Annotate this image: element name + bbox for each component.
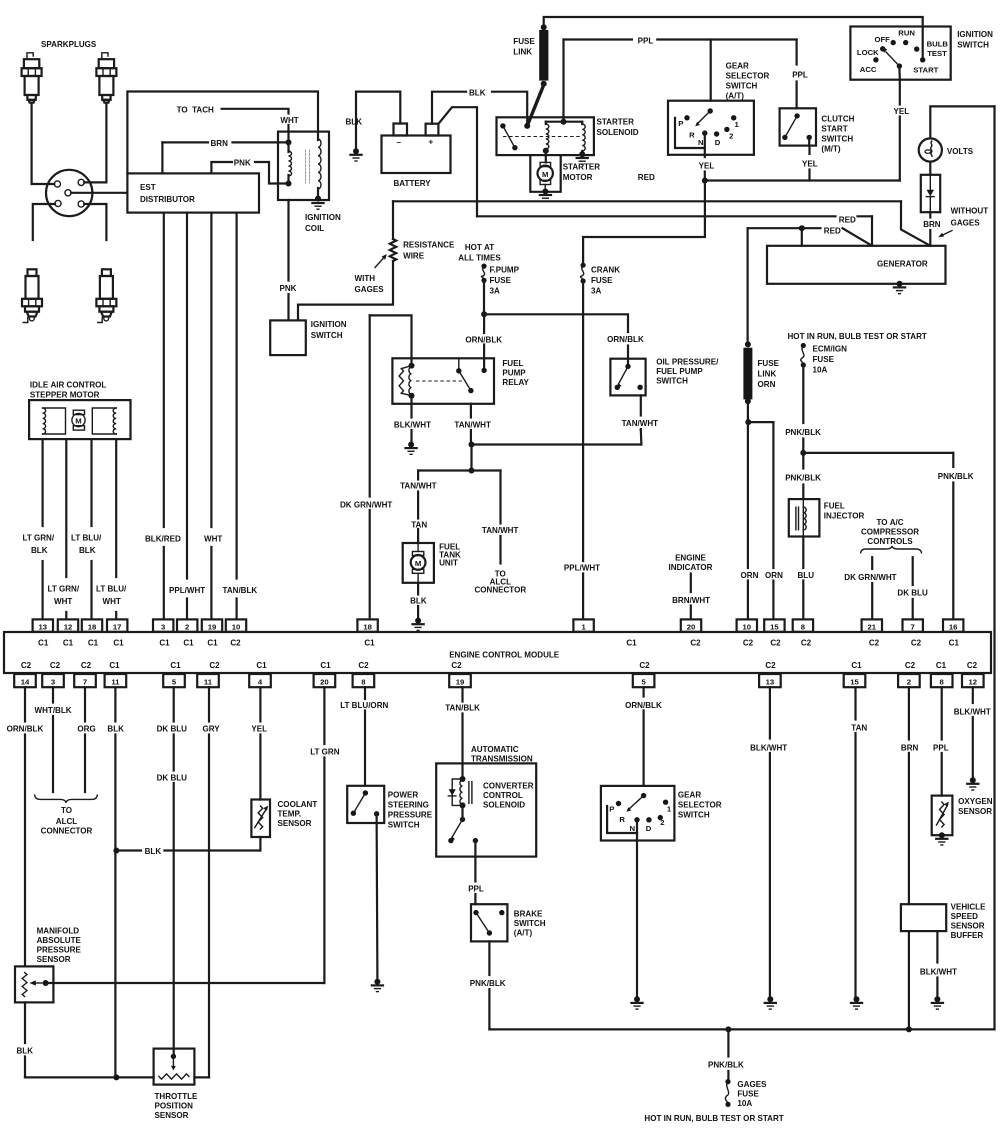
svg-text:TO A/C: TO A/C bbox=[876, 518, 903, 527]
svg-text:C1: C1 bbox=[626, 639, 637, 648]
node BLK coolant tee bbox=[113, 848, 119, 854]
wire solenoid winding to starter motor bbox=[545, 151, 547, 163]
wire distributor center to EST box bbox=[71, 192, 127, 194]
fuse link F1 bbox=[541, 24, 547, 30]
svg-text:ORN: ORN bbox=[758, 380, 776, 389]
svg-text:C1: C1 bbox=[88, 639, 99, 648]
svg-text:BATTERY: BATTERY bbox=[394, 179, 432, 188]
svg-text:C1: C1 bbox=[320, 661, 331, 670]
TPS wiper contact bbox=[171, 1054, 176, 1059]
wire LT GRN/WHT to ECM pin 12 bbox=[65, 439, 67, 577]
ground power steering switch bbox=[372, 984, 383, 986]
svg-text:UNIT: UNIT bbox=[439, 559, 458, 568]
svg-text:20: 20 bbox=[320, 677, 329, 686]
svg-text:ENGINE CONTROL MODULE: ENGINE CONTROL MODULE bbox=[449, 651, 560, 660]
ECM bottom pin 2 bbox=[898, 674, 920, 687]
wire BLK ECM pin 11 to sensors ground bbox=[114, 687, 116, 721]
svg-text:GAGES: GAGES bbox=[951, 219, 981, 228]
svg-text:ORN/BLK: ORN/BLK bbox=[625, 701, 662, 710]
svg-text:LT GRN/: LT GRN/ bbox=[48, 585, 80, 594]
node ORN branch bbox=[745, 419, 751, 425]
wire spark plug 1 to distributor bbox=[32, 103, 55, 184]
wire YEL clutch switch bbox=[808, 137, 810, 145]
arrow with gages bbox=[375, 258, 384, 268]
wire right-side rail down to bottom bus bbox=[993, 106, 995, 1029]
svg-text:LINK: LINK bbox=[513, 48, 532, 57]
wire BLK/WHT ECM pin 12 to ground bbox=[972, 687, 974, 703]
svg-text:STARTER: STARTER bbox=[597, 118, 635, 127]
svg-text:C2: C2 bbox=[358, 661, 369, 670]
gear selector bracket wire bbox=[675, 118, 705, 148]
svg-text:WITHOUT: WITHOUT bbox=[951, 207, 989, 216]
oxygen sensor box bbox=[932, 796, 953, 836]
diode D1 bbox=[927, 190, 934, 197]
svg-text:C2: C2 bbox=[21, 661, 32, 670]
ignition coil U1 box bbox=[278, 132, 329, 200]
svg-text:FUSE: FUSE bbox=[737, 1090, 759, 1099]
wire LT BLU/BLK to ECM pin 18 bbox=[90, 439, 92, 526]
node relay coil feed bbox=[481, 368, 486, 373]
svg-text:13: 13 bbox=[39, 622, 48, 631]
wire power steering switch to ground bbox=[376, 814, 379, 979]
ECM top pin 19 bbox=[202, 619, 222, 631]
svg-text:TAN/BLK: TAN/BLK bbox=[223, 586, 258, 595]
svg-text:SWITCH: SWITCH bbox=[656, 377, 688, 386]
wire LT BLU/WHT to ECM pin 17 bbox=[115, 439, 117, 577]
arrow without gages bbox=[942, 231, 952, 236]
wire BRN ECM pin 2 to speed buffer bbox=[908, 687, 910, 739]
svg-text:10: 10 bbox=[232, 622, 241, 631]
svg-text:CONNECTOR: CONNECTOR bbox=[41, 827, 93, 836]
svg-text:TO TACH: TO TACH bbox=[177, 106, 214, 115]
wire gear selector to ground bbox=[636, 833, 638, 996]
vehicle speed sensor buffer box bbox=[901, 904, 946, 931]
svg-text:F.PUMP: F.PUMP bbox=[490, 266, 520, 275]
svg-text:BRAKE: BRAKE bbox=[514, 910, 543, 919]
svg-text:BUFFER: BUFFER bbox=[951, 931, 984, 940]
node solenoid winding tap bbox=[561, 119, 567, 125]
svg-text:PNK: PNK bbox=[280, 284, 297, 293]
svg-text:START: START bbox=[913, 65, 938, 74]
svg-text:3: 3 bbox=[161, 622, 165, 631]
svg-text:10A: 10A bbox=[737, 1099, 752, 1108]
wire PPL/WHT distributor to ECM pin 2 bbox=[186, 213, 188, 579]
fuel pump relay coil bbox=[409, 363, 415, 369]
svg-text:DISTRIBUTOR: DISTRIBUTOR bbox=[140, 195, 195, 204]
ground battery negative bbox=[350, 154, 361, 156]
wire YEL ignition switch bbox=[898, 66, 901, 80]
oil pressure / fuel pump switch box bbox=[610, 359, 645, 396]
wire BLK battery positive to starter solenoid bbox=[432, 92, 466, 124]
idle air control motor M bbox=[73, 410, 84, 414]
wire TAN/WHT to fuel tank unit bbox=[417, 471, 419, 480]
svg-text:ORN/BLK: ORN/BLK bbox=[465, 336, 502, 345]
wire DK BLU ECM pin 5 to TPS bbox=[173, 687, 175, 721]
wire fuse link to solenoid bbox=[527, 85, 544, 126]
svg-text:FUEL: FUEL bbox=[502, 359, 523, 368]
ground speed buffer bbox=[932, 1002, 943, 1004]
svg-text:ECM/IGN: ECM/IGN bbox=[813, 345, 848, 354]
svg-text:DK GRN/WHT: DK GRN/WHT bbox=[340, 501, 392, 510]
svg-text:BLK/WHT: BLK/WHT bbox=[920, 968, 957, 977]
svg-text:PNK/BLK: PNK/BLK bbox=[938, 472, 974, 481]
svg-text:RELAY: RELAY bbox=[502, 378, 529, 387]
svg-text:TEMP.: TEMP. bbox=[278, 810, 302, 819]
coolant temp sensor box bbox=[251, 800, 270, 838]
svg-text:POWER: POWER bbox=[388, 791, 419, 800]
wire spark plug 3 to distributor bbox=[33, 204, 55, 240]
wire BLK to coolant sensor bbox=[116, 849, 141, 851]
starter solenoid windings bbox=[546, 121, 582, 123]
wire TAN/WHT relay output bbox=[470, 404, 472, 418]
svg-text:TAN/WHT: TAN/WHT bbox=[400, 482, 437, 491]
svg-text:FUEL: FUEL bbox=[824, 502, 845, 511]
ECM top pin 3 bbox=[153, 619, 173, 631]
brake switch contacts bbox=[473, 910, 478, 915]
wire BLU injector to ECM pin 8 bbox=[802, 537, 804, 569]
svg-text:BLK/WHT: BLK/WHT bbox=[394, 420, 431, 429]
wire MAP signal rail bbox=[46, 982, 325, 984]
svg-text:LT BLU/: LT BLU/ bbox=[96, 585, 127, 594]
wire TAN/BLK ECM pin 19 to transmission bbox=[461, 687, 463, 701]
svg-text:1: 1 bbox=[581, 622, 586, 631]
fuse GAGES FUSE 10A bbox=[725, 1079, 730, 1084]
ECM top pin 18 bbox=[357, 619, 377, 631]
svg-text:17: 17 bbox=[113, 622, 122, 631]
svg-text:FUSE: FUSE bbox=[490, 276, 512, 285]
svg-text:SELECTOR: SELECTOR bbox=[726, 72, 770, 81]
svg-text:2: 2 bbox=[729, 131, 733, 140]
svg-text:C2: C2 bbox=[801, 639, 812, 648]
wire fuel pump fuse to relay bbox=[483, 280, 485, 314]
wire PPL to clutch switch bbox=[795, 40, 797, 65]
wire ORN/BLK ECM pin 14 to MAP sensor bbox=[24, 687, 26, 721]
svg-text:CONTROL: CONTROL bbox=[483, 791, 523, 800]
ECM bottom pin 11 bbox=[197, 674, 219, 687]
svg-text:MOTOR: MOTOR bbox=[563, 173, 593, 182]
svg-text:TO: TO bbox=[61, 806, 72, 815]
wire TAN/WHT oil switch output bbox=[640, 395, 642, 415]
fuel injector coil bbox=[802, 499, 804, 536]
svg-text:C2: C2 bbox=[81, 661, 92, 670]
svg-text:SWITCH: SWITCH bbox=[514, 919, 546, 928]
wire PNK coil to ignition switch bbox=[287, 200, 289, 281]
svg-text:C1: C1 bbox=[38, 639, 49, 648]
wire PNK/BLK to gages fuse bbox=[727, 1029, 729, 1056]
manifold absolute pressure sensor box bbox=[15, 966, 53, 1002]
gear selector (lower) contacts bbox=[641, 793, 646, 798]
ECM bottom pin 8 bbox=[931, 674, 953, 687]
svg-text:SENSOR: SENSOR bbox=[951, 922, 985, 931]
svg-text:P: P bbox=[609, 805, 614, 814]
svg-text:SELECTOR: SELECTOR bbox=[678, 801, 722, 810]
node BLK/WHT right ground bbox=[970, 777, 976, 783]
svg-text:18: 18 bbox=[363, 622, 372, 631]
svg-text:BLK/RED: BLK/RED bbox=[145, 535, 181, 544]
svg-text:C2: C2 bbox=[967, 661, 978, 670]
svg-text:C1: C1 bbox=[364, 639, 375, 648]
svg-text:RED: RED bbox=[824, 227, 841, 236]
svg-text:GRY: GRY bbox=[203, 725, 221, 734]
svg-text:C2: C2 bbox=[911, 639, 922, 648]
ECM top pin 16 bbox=[943, 619, 963, 631]
ignition switch box bbox=[850, 27, 950, 80]
ignition coil primary winding bbox=[286, 139, 292, 145]
node PNK/BLK junction bbox=[800, 450, 806, 456]
svg-text:C2: C2 bbox=[230, 639, 241, 648]
node generator ground bbox=[897, 281, 903, 287]
svg-text:LT GRN/: LT GRN/ bbox=[23, 534, 55, 543]
svg-text:2: 2 bbox=[660, 818, 664, 827]
svg-text:M: M bbox=[542, 170, 548, 179]
svg-text:TAN/WHT: TAN/WHT bbox=[454, 420, 491, 429]
oil pressure switch contacts bbox=[625, 364, 630, 369]
wire PNK distributor to coil bbox=[211, 162, 232, 173]
wire PPL/WHT crank fuse to ECM pin 1 bbox=[582, 281, 584, 561]
power steering switch contacts bbox=[363, 790, 368, 795]
starter motor frame bbox=[530, 155, 560, 192]
gear selector switch (A/T) box bbox=[668, 101, 754, 155]
svg-text:STEPPER MOTOR: STEPPER MOTOR bbox=[30, 391, 100, 400]
node starter motor ground bbox=[542, 188, 548, 194]
svg-text:HOT AT: HOT AT bbox=[465, 243, 494, 252]
svg-text:5: 5 bbox=[641, 677, 646, 686]
svg-text:OXYGEN: OXYGEN bbox=[958, 797, 993, 806]
fuse CRANK FUSE 3A bbox=[581, 263, 586, 268]
throttle position sensor box bbox=[154, 1049, 195, 1085]
ground BLK/WHT bbox=[765, 1002, 776, 1004]
svg-text:P: P bbox=[678, 119, 683, 128]
svg-text:SENSOR: SENSOR bbox=[958, 807, 992, 816]
svg-text:BULB: BULB bbox=[927, 39, 949, 48]
svg-text:IDLE AIR CONTROL: IDLE AIR CONTROL bbox=[30, 381, 107, 390]
starter motor M1 bbox=[540, 162, 551, 166]
battery BAT box bbox=[382, 136, 451, 174]
svg-text:SWITCH: SWITCH bbox=[311, 331, 343, 340]
wire TAN/WHT tee bbox=[418, 469, 500, 471]
svg-text:C1: C1 bbox=[949, 639, 960, 648]
svg-text:ORG: ORG bbox=[77, 725, 95, 734]
wire distributor to coil secondary bbox=[127, 92, 318, 174]
svg-text:SOLENOID: SOLENOID bbox=[597, 128, 639, 137]
ignition coil fine print bbox=[305, 150, 307, 183]
gear selector wiper arm bbox=[697, 111, 710, 124]
svg-text:DK BLU: DK BLU bbox=[157, 774, 188, 783]
node TAN/WHT junction 2 bbox=[469, 468, 475, 474]
node BRN bus junction bbox=[906, 1026, 912, 1032]
svg-text:GAGES: GAGES bbox=[355, 285, 385, 294]
wire RED generator tap bbox=[748, 227, 821, 229]
spark plug 1 (top left) bbox=[22, 53, 42, 103]
svg-text:SENSOR: SENSOR bbox=[37, 955, 71, 964]
node oxygen sensor ground bbox=[939, 832, 945, 838]
svg-text:7: 7 bbox=[83, 677, 87, 686]
gear selector (lower) bracket wire bbox=[607, 806, 637, 833]
svg-text:BLK: BLK bbox=[410, 597, 427, 606]
svg-text:AUTOMATIC: AUTOMATIC bbox=[471, 745, 519, 754]
svg-text:PNK/BLK: PNK/BLK bbox=[708, 1061, 744, 1070]
wire YEL rail to ignition switch bbox=[705, 179, 900, 181]
node power steering ground bbox=[374, 979, 380, 985]
node RED generator junction bbox=[799, 225, 805, 231]
svg-text:COOLANT: COOLANT bbox=[278, 800, 318, 809]
svg-text:C1: C1 bbox=[851, 661, 862, 670]
svg-text:BLK: BLK bbox=[31, 546, 48, 555]
svg-text:10: 10 bbox=[743, 622, 752, 631]
wire ORG to ALCL brace bbox=[84, 687, 86, 721]
svg-text:2: 2 bbox=[907, 677, 911, 686]
wire RED battery positive to generator bbox=[439, 107, 478, 216]
svg-text:M: M bbox=[415, 559, 421, 568]
automatic transmission box bbox=[436, 763, 536, 856]
svg-text:8: 8 bbox=[801, 622, 806, 631]
wire WHT distributor to ECM pin 19 bbox=[210, 213, 212, 527]
svg-text:BRN: BRN bbox=[923, 220, 941, 229]
svg-text:CRANK: CRANK bbox=[591, 266, 620, 275]
svg-text:BLK: BLK bbox=[469, 88, 486, 97]
EST distributor cap circle bbox=[46, 170, 92, 216]
svg-text:HOT IN RUN, BULB TEST OR START: HOT IN RUN, BULB TEST OR START bbox=[788, 332, 927, 341]
ECM top pin 21 bbox=[862, 619, 882, 631]
svg-text:OFF: OFF bbox=[875, 35, 891, 44]
ground ignition coil bbox=[312, 202, 323, 204]
svg-text:PPL: PPL bbox=[933, 744, 949, 753]
battery positive terminal bbox=[426, 124, 439, 136]
brake switch (A/T) box bbox=[471, 904, 507, 941]
svg-text:SWITCH: SWITCH bbox=[678, 811, 710, 820]
wire volts feed bbox=[930, 106, 994, 138]
svg-text:+: + bbox=[429, 138, 434, 147]
ECM top pin 8 bbox=[793, 619, 813, 631]
ECM bottom pin 12 bbox=[962, 674, 984, 687]
svg-text:WHT: WHT bbox=[54, 597, 72, 606]
wire YEL gear selector bbox=[704, 148, 706, 157]
svg-text:TEST: TEST bbox=[927, 49, 947, 58]
svg-text:GEAR: GEAR bbox=[678, 791, 701, 800]
svg-text:DK BLU: DK BLU bbox=[897, 589, 928, 598]
svg-text:TAN: TAN bbox=[851, 724, 867, 733]
wire ORN branch to ECM pin 15 bbox=[748, 421, 773, 423]
node relay ground bbox=[408, 442, 414, 448]
svg-text:3: 3 bbox=[51, 677, 55, 686]
svg-text:C1: C1 bbox=[256, 661, 267, 670]
ground TAN bbox=[851, 1002, 862, 1004]
starter solenoid box bbox=[497, 117, 594, 155]
svg-text:1: 1 bbox=[735, 120, 740, 129]
gear selector switch box (lower) bbox=[601, 786, 675, 841]
wire DK BLU to ECM pin 7 bbox=[912, 557, 914, 585]
wire LT GRN/BLK to ECM pin 13 bbox=[41, 439, 43, 526]
solenoid clamp diode bbox=[449, 789, 456, 795]
svg-text:C2: C2 bbox=[209, 661, 220, 670]
idle air control box bbox=[29, 400, 130, 439]
generator G1 box bbox=[767, 246, 946, 284]
svg-text:ALL TIMES: ALL TIMES bbox=[458, 254, 501, 263]
svg-text:3A: 3A bbox=[490, 287, 500, 296]
svg-text:R: R bbox=[619, 815, 625, 824]
node MAP wiper bbox=[43, 980, 49, 986]
wire spark plug 2 to distributor bbox=[84, 103, 106, 183]
ground generator bbox=[894, 286, 905, 288]
wire PPL rail bbox=[564, 38, 632, 40]
wire fuse link feed bbox=[544, 17, 923, 60]
ECM bottom pin 4 bbox=[249, 674, 271, 687]
wire PPL ignition to solenoid bbox=[562, 40, 564, 122]
svg-text:BLK: BLK bbox=[145, 847, 162, 856]
svg-text:11: 11 bbox=[111, 677, 120, 686]
svg-text:N: N bbox=[698, 138, 704, 147]
svg-text:15: 15 bbox=[850, 677, 859, 686]
idle air control winding B bbox=[92, 408, 116, 434]
svg-text:C1: C1 bbox=[207, 639, 218, 648]
starter solenoid dashed link bbox=[503, 136, 583, 138]
svg-text:IGNITION: IGNITION bbox=[311, 320, 347, 329]
svg-text:13: 13 bbox=[766, 677, 775, 686]
ECM bottom pin 8 bbox=[353, 674, 375, 687]
idle air control winding A bbox=[43, 408, 66, 434]
wire BRN diode to generator bbox=[929, 212, 931, 217]
svg-text:SPEED: SPEED bbox=[951, 912, 978, 921]
ECM bottom pin 3 bbox=[42, 674, 64, 687]
MAP sensor potentiometer bbox=[22, 973, 27, 997]
ECM top pin 17 bbox=[107, 619, 127, 631]
svg-text:10A: 10A bbox=[813, 366, 828, 375]
svg-text:BRN/WHT: BRN/WHT bbox=[672, 596, 710, 605]
ECM top pin 1 bbox=[573, 619, 593, 631]
node speed buffer ground bbox=[934, 996, 940, 1002]
ECM bottom pin 19 bbox=[449, 674, 471, 687]
svg-text:16: 16 bbox=[949, 622, 958, 631]
svg-text:BLK: BLK bbox=[346, 118, 363, 127]
svg-text:3A: 3A bbox=[591, 287, 601, 296]
svg-text:M: M bbox=[75, 416, 81, 425]
svg-text:GAGES: GAGES bbox=[737, 1080, 767, 1089]
wire LT BLU/ORN ECM pin 8 to power steering switch bbox=[364, 687, 366, 699]
svg-text:PPL: PPL bbox=[468, 885, 484, 894]
wire BLK/WHT speed buffer to ground bbox=[936, 931, 938, 962]
svg-text:IGNITION: IGNITION bbox=[305, 213, 341, 222]
node fuel tank ground bbox=[415, 618, 421, 624]
ECM top pin 7 bbox=[903, 619, 923, 631]
wire DK GRN/WHT to ECM pin 21 bbox=[871, 557, 873, 569]
ECM bottom pin 20 bbox=[314, 674, 336, 687]
svg-text:FUSE: FUSE bbox=[758, 359, 780, 368]
wire TO TACH bbox=[222, 109, 289, 114]
brace to ALCL connector bbox=[35, 794, 98, 802]
svg-text:STARTER: STARTER bbox=[563, 163, 601, 172]
node gear selector ground bbox=[634, 996, 640, 1002]
svg-text:4: 4 bbox=[258, 677, 263, 686]
svg-text:BLK/WHT: BLK/WHT bbox=[954, 708, 991, 717]
svg-text:PPL/WHT: PPL/WHT bbox=[169, 586, 205, 595]
svg-text:19: 19 bbox=[456, 677, 465, 686]
svg-text:STEERING: STEERING bbox=[388, 801, 429, 810]
resistance wire R1 bbox=[392, 201, 394, 239]
svg-text:IGNITION: IGNITION bbox=[957, 30, 993, 39]
ignition switch S1 box bbox=[270, 320, 306, 355]
svg-text:YEL: YEL bbox=[699, 162, 715, 171]
node gages fuse tap bbox=[725, 1026, 731, 1032]
svg-text:(A/T): (A/T) bbox=[726, 92, 745, 101]
svg-text:WHT: WHT bbox=[103, 597, 121, 606]
svg-text:ORN: ORN bbox=[741, 571, 759, 580]
svg-text:WHT: WHT bbox=[204, 535, 222, 544]
battery negative terminal bbox=[394, 124, 408, 136]
svg-text:DK GRN/WHT: DK GRN/WHT bbox=[844, 573, 896, 582]
svg-text:INJECTOR: INJECTOR bbox=[824, 512, 865, 521]
fuse link ORN F2 bbox=[745, 341, 751, 347]
fuel pump relay K1 box bbox=[392, 358, 494, 404]
